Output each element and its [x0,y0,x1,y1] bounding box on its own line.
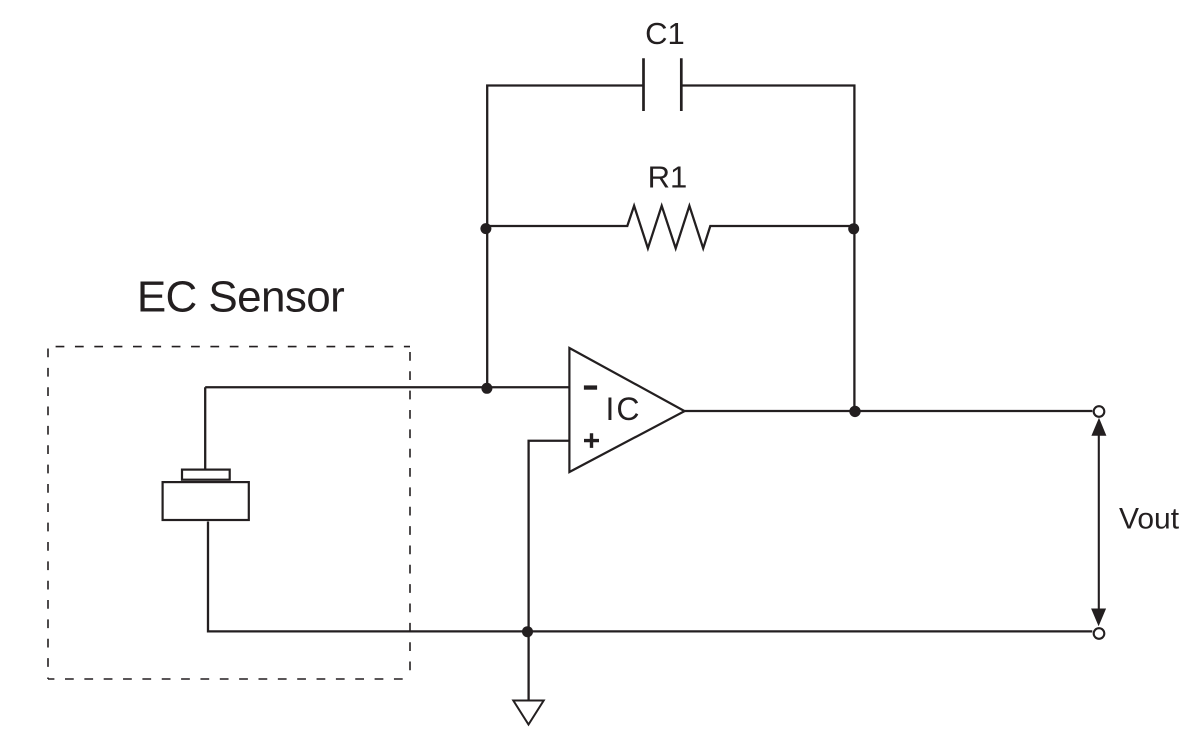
svg-text:R1: R1 [648,160,688,195]
svg-text:EC Sensor: EC Sensor [137,272,344,321]
svg-text:Vout: Vout [1119,503,1180,536]
svg-text:IC: IC [606,391,642,427]
svg-text:C1: C1 [645,16,685,51]
